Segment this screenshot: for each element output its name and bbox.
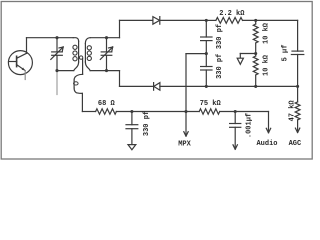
svg-text:47 kΩ: 47 kΩ bbox=[289, 100, 297, 122]
svg-text:5 µf: 5 µf bbox=[282, 45, 290, 62]
svg-text:330 pf: 330 pf bbox=[143, 111, 151, 136]
svg-text:2.2 kΩ: 2.2 kΩ bbox=[219, 10, 245, 18]
svg-text:.001µf: .001µf bbox=[246, 113, 254, 138]
svg-text:Audio: Audio bbox=[256, 140, 277, 148]
svg-text:330 pf: 330 pf bbox=[216, 24, 224, 49]
svg-text:10 kΩ: 10 kΩ bbox=[263, 22, 271, 44]
svg-text:330 pf: 330 pf bbox=[216, 54, 224, 79]
svg-text:68 Ω: 68 Ω bbox=[98, 100, 116, 108]
svg-text:MPX: MPX bbox=[178, 140, 191, 148]
svg-text:75 kΩ: 75 kΩ bbox=[200, 100, 222, 108]
svg-text:AGC: AGC bbox=[289, 140, 302, 148]
svg-text:10 kΩ: 10 kΩ bbox=[263, 54, 271, 76]
